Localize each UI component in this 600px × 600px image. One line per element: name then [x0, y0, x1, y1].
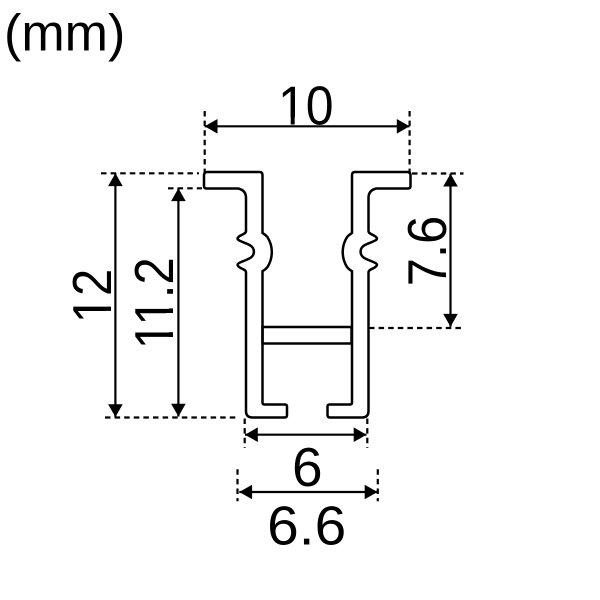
dim 11.2 dimension line	[177, 188, 179, 416]
dim 6.6 arrow left	[239, 485, 252, 500]
dim 11.2 extension line top	[168, 187, 202, 189]
svg-text:6.6: 6.6	[267, 495, 346, 557]
svg-text:12: 12	[61, 269, 123, 323]
dim 6.6 extension line left	[236, 469, 238, 501]
svg-text:11.2: 11.2	[123, 257, 185, 349]
dim 10 extension line right	[409, 111, 411, 175]
dim 7.6 arrow bottom	[443, 314, 458, 327]
dim 12 dimension line	[114, 173, 116, 417]
dim 10 label	[278, 74, 334, 136]
dim 6 arrow left	[245, 427, 258, 442]
dim 11.2 label	[123, 257, 185, 349]
profile left half outline	[204, 172, 287, 418]
dim 11.2 arrow top	[171, 188, 186, 201]
dim 6 arrow right	[354, 427, 367, 442]
dim 10 extension line left	[204, 111, 206, 175]
dim 6.6 extension line right	[377, 469, 379, 501]
dim 7.6 extension line top	[412, 172, 464, 174]
svg-text:(mm): (mm)	[4, 5, 125, 63]
svg-text:7.6: 7.6	[396, 216, 458, 287]
dim 6.6 dimension line	[239, 491, 377, 493]
dim 7.6 dimension line	[449, 174, 451, 327]
dim 7.6 extension line bottom	[369, 327, 463, 329]
dim 12 arrow top	[108, 173, 123, 186]
profile right half outline (mirror)	[328, 172, 411, 418]
dim 7.6 arrow top	[443, 174, 458, 187]
dim 12 arrow bottom	[108, 404, 123, 417]
dim 10 dimension line	[205, 125, 410, 127]
dim 11.2 arrow bottom	[171, 404, 186, 417]
dim 10 arrow right	[397, 119, 410, 134]
dim 12 label	[61, 269, 123, 323]
dim 6 extension line right	[366, 419, 368, 449]
dim 6 dimension line	[245, 434, 367, 436]
dim 12 extension line top	[101, 172, 199, 174]
dim 6.6 arrow right	[365, 485, 378, 500]
svg-text:10: 10	[278, 74, 334, 136]
dim 6 extension line left	[244, 419, 246, 449]
profile web crossbar	[263, 327, 352, 344]
svg-text:6: 6	[292, 436, 323, 498]
dim 10 arrow left	[205, 119, 218, 134]
dim 12/11.2 extension line bottom	[105, 416, 236, 418]
